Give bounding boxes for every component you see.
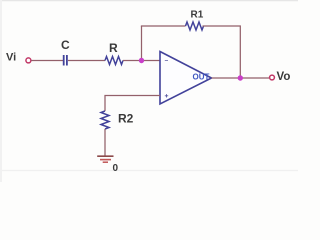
svg-text:R2: R2 bbox=[118, 112, 134, 126]
label R bbox=[109, 41, 118, 55]
resistor R2 bbox=[101, 111, 109, 129]
svg-text:Vo: Vo bbox=[277, 71, 291, 83]
svg-text:R: R bbox=[109, 41, 118, 55]
junction node output bbox=[238, 75, 243, 80]
wire R1 to right vertical bbox=[203, 26, 241, 78]
resistor R bbox=[105, 57, 123, 65]
wire output bbox=[212, 77, 270, 79]
wire C to R bbox=[68, 60, 105, 62]
ground 0 bbox=[97, 156, 113, 162]
svg-text:Vi: Vi bbox=[6, 52, 16, 64]
label Vo bbox=[277, 71, 291, 83]
wire Vi to C bbox=[31, 60, 63, 62]
label Vi bbox=[6, 52, 16, 64]
svg-text:C: C bbox=[61, 38, 70, 52]
label R2 bbox=[118, 112, 134, 126]
wire top left to R1 bbox=[142, 25, 186, 28]
terminal Vi bbox=[26, 58, 31, 63]
junction node A bbox=[139, 58, 144, 63]
label 0 bbox=[113, 163, 119, 174]
wire R to op-amp bbox=[123, 60, 160, 62]
svg-text:0: 0 bbox=[113, 163, 119, 174]
wire op-amp plus input to corner bbox=[105, 96, 160, 112]
pin label OUT bbox=[193, 72, 210, 81]
resistor R1 bbox=[186, 22, 204, 30]
op-amp U1 bbox=[160, 52, 212, 105]
terminal Vo bbox=[270, 75, 275, 80]
wire feedback left vertical bbox=[141, 26, 143, 61]
svg-text:R1: R1 bbox=[191, 10, 204, 21]
label R1 bbox=[191, 10, 204, 21]
svg-text:OUT: OUT bbox=[193, 72, 210, 81]
wire R2 to ground bbox=[104, 129, 106, 156]
label C bbox=[61, 38, 70, 52]
capacitor C bbox=[64, 55, 67, 66]
